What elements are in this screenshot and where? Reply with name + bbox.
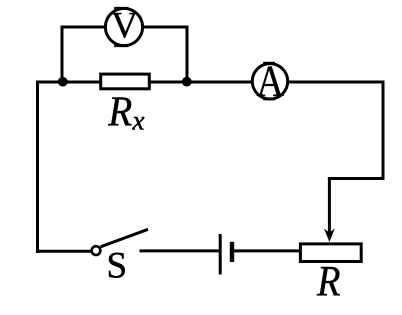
wire: main top rail, left corner to resistor Rx bbox=[36, 81, 101, 84]
wire: jog horizontal toward rheostat wiper bbox=[328, 177, 385, 180]
wire: battery to rheostat R bbox=[234, 249, 300, 252]
wire: voltmeter branch left vertical (node a to top-left corner) bbox=[61, 27, 64, 82]
node a junction dot bbox=[58, 77, 68, 87]
wire: left side vertical (top rail to bottom rail) bbox=[36, 81, 39, 254]
svg-text:R: R bbox=[107, 90, 132, 136]
wire: right side vertical drop bbox=[382, 81, 385, 181]
battery BT1 negative plate (short thick) bbox=[230, 242, 234, 262]
svg-text:A: A bbox=[256, 57, 284, 106]
ammeter A1 circle bbox=[252, 64, 287, 99]
wire: switch S to battery bbox=[140, 249, 220, 252]
wire: resistor Rx to ammeter A1 bbox=[149, 81, 253, 84]
svg-text:V: V bbox=[111, 6, 138, 47]
ammeter A1 bottom terminal stub bbox=[263, 98, 275, 101]
wire: voltmeter branch right vertical (top-right corner to node b) bbox=[186, 27, 189, 82]
wire: bottom rail, left corner to switch S bbox=[36, 250, 91, 253]
switch S blade bbox=[101, 229, 149, 247]
rheostat R body bbox=[300, 244, 361, 262]
wire: voltmeter branch top-right horizontal bbox=[142, 26, 189, 29]
switch S pivot circle bbox=[92, 246, 101, 255]
wire: ammeter A1 to top-right corner bbox=[287, 81, 385, 84]
resistor Rx body bbox=[101, 74, 150, 89]
wire: voltmeter branch top-left horizontal bbox=[61, 26, 107, 29]
svg-text:x: x bbox=[132, 106, 145, 136]
svg-text:S: S bbox=[107, 246, 128, 287]
voltmeter V1 circle bbox=[105, 8, 142, 45]
voltmeter V1 bottom terminal stub bbox=[114, 44, 128, 47]
svg-text:R: R bbox=[316, 259, 340, 306]
wire: rheostat wiper stem vertical bbox=[328, 177, 331, 233]
rheostat R wiper arrowhead bbox=[324, 229, 335, 243]
ammeter A1 top terminal stub bbox=[263, 62, 275, 65]
node b junction dot bbox=[182, 77, 192, 87]
voltmeter V1 top terminal stub bbox=[114, 7, 128, 10]
battery BT1 positive plate (long) bbox=[219, 234, 222, 274]
